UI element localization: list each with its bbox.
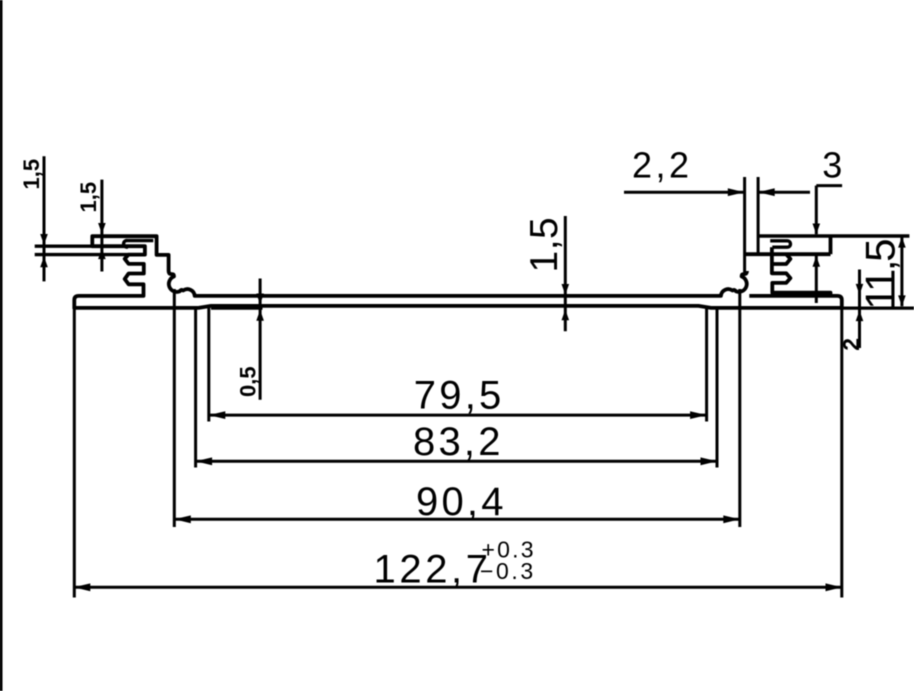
svg-text:122,7: 122,7 [374, 548, 492, 592]
dimension 2 right: arrowheads [856, 284, 864, 295]
right comb J-slot line with rounded cap [770, 241, 790, 247]
dimension 122,7: arrowheads [74, 583, 91, 591]
dimension 83,2: extension verticals [194, 308, 197, 468]
dimension 2,2: dim line + tails [624, 191, 744, 194]
dimension 11,5: line [900, 237, 903, 306]
dimension 3: arrowheads [813, 224, 821, 235]
dimension 1,5 far left: arrowheads [40, 234, 48, 245]
dimension 83,2: dim line [196, 460, 717, 463]
svg-text:2: 2 [838, 338, 864, 351]
dimension 2,2: extension verticals [743, 177, 746, 275]
dimension 122,7: dim line [74, 586, 842, 589]
right comb fin tip vertical [829, 236, 833, 254]
dimension 90,4: dim line [174, 518, 740, 521]
dimension 1,5 second: line [100, 180, 103, 272]
dimension 3: tail + line [816, 184, 842, 187]
dimension 122,7: extension verticals [73, 308, 76, 598]
svg-text:90,4: 90,4 [416, 480, 507, 524]
dimension 83,2: arrowheads [196, 457, 213, 465]
svg-text:1,5: 1,5 [19, 159, 44, 190]
svg-text:−0.3: −0.3 [480, 558, 536, 584]
left comb tooth-top extension line E2 [35, 253, 129, 256]
left comb J-slot line with rounded cap [124, 241, 154, 248]
frame left border line [0, 0, 3, 691]
dimension 1,5 center: line [564, 216, 567, 331]
dimension 2 right: line [858, 270, 861, 349]
svg-text:11,5: 11,5 [857, 240, 904, 310]
svg-text:2,2: 2,2 [632, 144, 693, 185]
dimension 11,5: arrowheads [898, 237, 906, 248]
dimension 1,5 center: arrowheads [562, 284, 570, 295]
dimension 2,2: arrowheads [728, 188, 745, 196]
dimension 1,5 second: arrowheads [98, 223, 106, 234]
profile plate top right portion + right edge [749, 296, 842, 309]
right comb teeth [772, 254, 831, 296]
dimension 90,4: arrowheads [174, 515, 191, 523]
left comb fin bottom extension line E1 [35, 244, 93, 247]
dimension 90,4: extension verticals [173, 289, 176, 527]
svg-text:0,5: 0,5 [236, 366, 261, 397]
svg-text:83,2: 83,2 [413, 420, 504, 464]
dimension 0,5: line [259, 279, 262, 400]
right comb inner slot floor vertical [770, 247, 774, 264]
svg-text:79,5: 79,5 [414, 373, 505, 417]
dimension 79,5: arrowheads [209, 411, 226, 419]
profile outline: left end plate, left comb teeth, fin, curl, hump, plate top [74, 236, 747, 309]
bottom edge extension to right image edge [842, 307, 914, 310]
svg-text:1,5: 1,5 [76, 182, 101, 213]
profile bottom edge with 0.5 step [74, 306, 842, 308]
right comb fin top line A + extension to 11,5 dim [758, 234, 909, 237]
dimension 79,5: dim line [209, 414, 707, 417]
dimension 0,5: arrowheads [256, 294, 264, 305]
dimension 0,5: extension line (doubled band) [211, 307, 263, 310]
right comb fin bottom line B [745, 252, 831, 256]
svg-text:1,5: 1,5 [523, 217, 566, 273]
dimension 79,5: extension verticals [207, 308, 210, 422]
dimension 1,5 far left: line [43, 156, 46, 281]
svg-text:3: 3 [822, 144, 842, 185]
